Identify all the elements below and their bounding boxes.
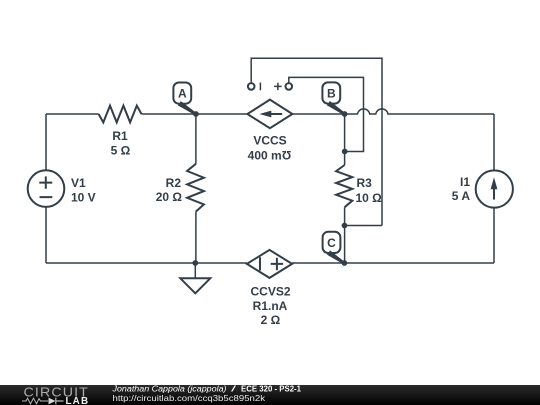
svg-text:A: A (178, 87, 187, 101)
wire: top rail left segment (V1 top to R1) (46, 113, 99, 115)
CCVS2 plus mark (271, 258, 283, 271)
CCVS2 minus bar (259, 257, 261, 270)
CircuitLab logo: diode symbol (49, 398, 56, 405)
voltage source V1 (28, 170, 65, 207)
VCCS sense minus mark (259, 83, 261, 91)
svg-text:5 Ω: 5 Ω (111, 144, 131, 158)
CCVS2 diamond (247, 250, 292, 278)
svg-text:C: C (327, 236, 336, 250)
current source I1 (476, 170, 513, 207)
node B pointer (327, 101, 346, 115)
svg-text:I1: I1 (460, 175, 470, 189)
svg-text:20 Ω: 20 Ω (156, 190, 183, 204)
junction dot at R3 top sense tap (342, 149, 348, 155)
svg-text:B: B (327, 86, 336, 100)
node A pointer (178, 101, 197, 115)
node B label box (322, 82, 340, 103)
resistor R1 (99, 106, 142, 123)
node B junction dot (342, 111, 348, 117)
wire: bottom rail left of CCVS2 (46, 262, 247, 264)
VCCS sense plus mark (274, 83, 281, 90)
CircuitLab logo: resistor zigzag (22, 398, 48, 404)
wire: right sense terminal to node B side (loop x=363.5) (289, 77, 364, 151)
svg-text:VCCS: VCCS (253, 134, 286, 148)
svg-text:5 A: 5 A (452, 189, 471, 203)
node A label box (173, 83, 191, 104)
wire: VCCS right vertex to right rail with hops over sense wires (292, 109, 494, 114)
svg-text:2 Ω: 2 Ω (261, 313, 281, 327)
resistor R2 (195, 114, 197, 164)
svg-text:R3: R3 (357, 176, 373, 190)
wire: right rail (x=494) (493, 114, 495, 263)
resistor R3 (344, 114, 346, 165)
svg-text:R1.nA: R1.nA (253, 299, 288, 313)
svg-text:10 Ω: 10 Ω (356, 191, 383, 205)
VCCS sense terminal left (circle) (248, 83, 255, 90)
node A junction dot (193, 111, 199, 117)
svg-text:http://circuitlab.com/ccq3b5c8: http://circuitlab.com/ccq3b5c895n2k (113, 393, 266, 403)
wire: left sense terminal to node C side (top loop x=382) (251, 58, 382, 225)
svg-text:CCVS2: CCVS2 (250, 285, 290, 299)
svg-text:10 V: 10 V (71, 191, 96, 205)
ground junction dot (192, 260, 198, 266)
svg-text:400 mƱ: 400 mƱ (248, 149, 292, 163)
wire: left rail (x=46) (45, 114, 47, 263)
VCCS U1 diamond (247, 100, 292, 129)
VCCS arrow (268, 113, 282, 115)
ground (194, 263, 196, 278)
VCCS sense terminal right (circle) (286, 83, 293, 90)
svg-text:LAB: LAB (66, 396, 90, 405)
wire: bottom rail right of CCVS2 (292, 262, 494, 264)
node C label box (323, 232, 341, 253)
svg-text:V1: V1 (71, 176, 86, 190)
node C pointer (327, 250, 345, 264)
node C junction dot (342, 260, 348, 266)
wire: R1 to VCCS left vertex (through node A) (142, 113, 248, 115)
svg-text:R2: R2 (166, 176, 182, 190)
junction dot at R3 bottom sense tap (342, 223, 348, 229)
svg-text:R1: R1 (112, 129, 128, 143)
